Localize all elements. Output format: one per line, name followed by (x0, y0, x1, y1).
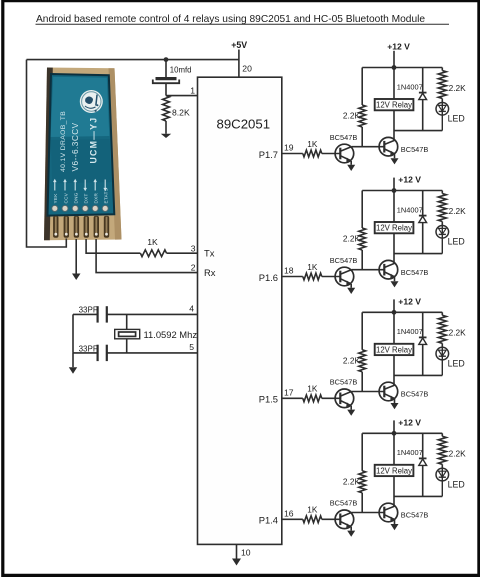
svg-text:BC547B: BC547B (330, 499, 358, 508)
wire base node (channel 4) (352, 512, 385, 514)
transistor Q4a BC547B (335, 510, 354, 529)
wire port to base resistor (channel 3) (282, 397, 303, 399)
resistor 2.2K pull-up (channel 2) (359, 191, 366, 270)
svg-text:1K: 1K (147, 237, 158, 247)
resistor 2.2K pull-up (channel 4) (359, 433, 366, 512)
svg-text:1N4007: 1N4007 (397, 82, 423, 91)
resistor 1K (serial) (140, 250, 166, 257)
svg-text:2.2K: 2.2K (449, 328, 467, 338)
junction node on +12V rail (channel 2) (392, 188, 397, 193)
svg-text:P1.5: P1.5 (259, 394, 278, 405)
ground (pin 10) (232, 559, 241, 566)
wire LED/diode return (channel 1) (394, 130, 442, 132)
wire port to base resistor (channel 4) (282, 518, 303, 520)
transistor Q1a BC547B (335, 144, 354, 163)
svg-text:LED: LED (448, 479, 465, 489)
ground (Q3b emitter) (391, 399, 399, 409)
resistor 1K base (channel 1) (303, 150, 322, 157)
svg-text:4: 4 (189, 303, 194, 313)
svg-text:+12 V: +12 V (398, 418, 421, 428)
svg-text:2.2K: 2.2K (449, 449, 467, 459)
svg-text:YEK: YEK (53, 193, 58, 204)
relay driver channel 3 (259, 297, 466, 416)
svg-text:2: 2 (191, 262, 196, 272)
wire relay coil bottom to collector (channel 3) (393, 355, 395, 385)
LED indicator (channel 4) (436, 468, 449, 496)
LED indicator (channel 1) (436, 103, 449, 131)
svg-text:V6--6.3CCV: V6--6.3CCV (71, 122, 80, 171)
wire 8.2K to ground (165, 121, 167, 134)
svg-text:P1.6: P1.6 (259, 272, 278, 283)
ground (below 8.2K) (161, 134, 171, 138)
wire 1K to Q3a base (channel 3) (322, 397, 341, 399)
svg-text:20: 20 (242, 64, 252, 74)
wire 1K to pin 3 Tx (167, 252, 198, 254)
svg-text:19: 19 (284, 143, 294, 153)
transistor Q2a BC547B (335, 267, 354, 286)
wire pin 4 left segment (73, 313, 98, 315)
resistor 2.2K LED series (channel 4) (438, 433, 446, 468)
wire pin 1 (166, 95, 198, 97)
svg-text:+12 V: +12 V (398, 175, 421, 185)
svg-text:1K: 1K (307, 139, 318, 149)
wire LED/diode return (channel 4) (394, 495, 442, 497)
svg-text:12V Relay: 12V Relay (376, 345, 412, 354)
relay RL1 12V Relay (375, 99, 414, 110)
svg-text:+12 V: +12 V (387, 42, 410, 52)
svg-text:ETATS: ETATS (104, 188, 109, 204)
wire caps common left (72, 314, 74, 353)
wire crystal bottom stub (126, 339, 128, 353)
svg-text:DXT: DXT (84, 193, 89, 203)
svg-text:2.2K: 2.2K (449, 206, 467, 216)
LED indicator (channel 3) (436, 347, 449, 375)
wire module GND down (75, 239, 77, 274)
svg-text:BC547B: BC547B (401, 390, 429, 399)
svg-text:1K: 1K (307, 262, 318, 272)
wire base node (channel 1) (352, 146, 385, 148)
relay driver channel 4 (259, 418, 466, 537)
wire 1K to Q4a base (channel 4) (322, 518, 341, 520)
resistor 2.2K pull-up (channel 3) (359, 312, 366, 391)
wire port to base resistor (channel 2) (282, 276, 303, 278)
ground (Q2b emitter) (391, 277, 399, 287)
ground (Q1b emitter) (391, 154, 399, 164)
svg-text:10mfd: 10mfd (170, 65, 192, 74)
svg-text:LED: LED (448, 237, 465, 247)
wire +12V feed (channel 4) (393, 420, 395, 433)
svg-text:Tx: Tx (204, 247, 215, 258)
relay driver channel 1 (259, 42, 466, 171)
wire LED/diode return (channel 2) (394, 253, 442, 255)
resistor 1K base (channel 2) (303, 273, 322, 280)
wire module RXD to pin 2 Rx (96, 239, 197, 273)
wire +12V feed (channel 2) (393, 178, 395, 191)
wire pin 5 right segment (107, 352, 198, 354)
wire crystal top stub (126, 314, 128, 329)
svg-text:16: 16 (284, 508, 294, 518)
resistor 2.2K pull-up (channel 1) (359, 68, 366, 147)
wire relay coil top (channel 2) (393, 191, 395, 223)
svg-text:2.2K: 2.2K (449, 83, 467, 93)
wire +12V rail (channel 3) (362, 311, 442, 313)
svg-text:LED: LED (448, 114, 465, 124)
svg-text:1N4007: 1N4007 (397, 448, 423, 457)
junction node on +12V rail (channel 1) (392, 65, 397, 70)
transistor Q4b BC547B (379, 503, 398, 522)
svg-text:UCM—YJ: UCM—YJ (89, 117, 99, 164)
transistor Q3a BC547B (335, 389, 354, 408)
junction node on +12V rail (channel 4) (392, 431, 397, 436)
ground (module GND pin) (72, 274, 81, 281)
svg-text:P1.4: P1.4 (259, 515, 278, 526)
wire +12V rail (channel 2) (362, 190, 442, 192)
wire relay coil top (channel 3) (393, 312, 395, 344)
ground (Q4a emitter) (347, 527, 355, 537)
svg-text:+5V: +5V (231, 40, 247, 50)
wire cap bottom to pin1 node (165, 83, 167, 95)
svg-text:BC547B: BC547B (401, 268, 429, 277)
ground (Q4b emitter) (391, 520, 399, 530)
svg-text:5: 5 (189, 342, 194, 352)
svg-text:33PF: 33PF (79, 344, 98, 353)
resistor 2.2K LED series (channel 3) (438, 312, 446, 347)
wire +5V rail (27, 59, 239, 61)
wire crystal to ground (72, 353, 74, 367)
svg-text:BC547B: BC547B (330, 378, 358, 387)
wire +12V feed (channel 1) (393, 51, 395, 68)
wire +5V to module VCC (left loop) (27, 60, 67, 247)
svg-text:11.0592 Mhz: 11.0592 Mhz (144, 329, 198, 340)
capacitor C 10mfd (polarized) (153, 79, 179, 84)
svg-text:1N4007: 1N4007 (397, 205, 423, 214)
wire +5V drop to pin 20 (238, 50, 240, 78)
svg-text:2.2K: 2.2K (343, 111, 361, 121)
wire +12V rail (channel 1) (362, 67, 442, 69)
wire LED/diode return (channel 3) (394, 374, 442, 376)
svg-text:2.2K: 2.2K (343, 355, 361, 365)
diode D1 1N4007 flyback (419, 68, 427, 131)
capacitor 33PF (top) (98, 306, 107, 322)
svg-text:DNG: DNG (74, 192, 79, 203)
svg-text:17: 17 (284, 387, 294, 397)
svg-text:12V Relay: 12V Relay (376, 224, 412, 233)
svg-text:18: 18 (284, 266, 294, 276)
svg-text:33PF: 33PF (79, 305, 98, 314)
svg-text:LED: LED (448, 358, 465, 368)
title underline (36, 23, 450, 25)
resistor 8.2K (163, 96, 170, 121)
pin 10 wire (236, 544, 238, 558)
svg-text:CCV: CCV (63, 192, 68, 203)
wire relay coil top (channel 1) (393, 68, 395, 100)
svg-text:1K: 1K (307, 384, 318, 394)
svg-text:8.2K: 8.2K (172, 107, 190, 117)
diode D2 1N4007 flyback (419, 191, 427, 254)
wire relay coil bottom to collector (channel 1) (393, 110, 395, 140)
svg-text:3: 3 (191, 243, 196, 253)
svg-text:10: 10 (241, 548, 251, 558)
relay driver channel 2 (259, 175, 466, 294)
wire port to base resistor (channel 1) (282, 153, 303, 155)
svg-text:BC547B: BC547B (401, 145, 429, 154)
capacitor 33PF (bottom) (98, 345, 107, 361)
HC-05 bluetooth module U2 (JY-MCU photo) (44, 68, 122, 241)
ground (Q3a emitter) (347, 406, 355, 416)
LED indicator (channel 2) (436, 226, 449, 254)
wire base node (channel 2) (352, 269, 385, 271)
resistor 2.2K LED series (channel 1) (438, 68, 446, 103)
IC U1 89C2051 body (198, 77, 282, 544)
diode D3 1N4007 flyback (419, 312, 427, 375)
transistor Q1b BC547B (379, 137, 398, 156)
svg-text:BC547B: BC547B (330, 133, 358, 142)
resistor 1K base (channel 3) (303, 395, 322, 402)
wire pin 5 left segment (73, 352, 98, 354)
wire relay coil bottom to collector (channel 2) (393, 233, 395, 263)
svg-text:12V Relay: 12V Relay (376, 101, 412, 110)
ground (Q2a emitter) (347, 284, 355, 294)
relay RL2 12V Relay (375, 222, 414, 233)
wire relay coil top (channel 4) (393, 433, 395, 465)
svg-text:P1.7: P1.7 (259, 149, 278, 160)
svg-text:+12 V: +12 V (398, 297, 421, 307)
junction node (cap 10mfd tap) (164, 57, 169, 62)
transistor Q3b BC547B (379, 382, 398, 401)
svg-text:40.1V DRAOB_TB: 40.1V DRAOB_TB (60, 111, 67, 172)
wire 1K to Q2a base (channel 2) (322, 276, 341, 278)
wire base node (channel 3) (352, 391, 385, 393)
svg-text:BC547B: BC547B (401, 511, 429, 520)
junction node on +12V rail (channel 3) (392, 310, 397, 315)
svg-text:Rx: Rx (204, 267, 216, 278)
svg-text:Android based remote control o: Android based remote control of 4 relays… (36, 14, 425, 25)
svg-text:2.2K: 2.2K (343, 234, 361, 244)
wire +12V rail (channel 4) (362, 432, 442, 434)
wire pin 4 right segment (107, 313, 198, 315)
crystal X1 11.0592 Mhz (115, 329, 140, 338)
wire module TXD to 1K (86, 239, 140, 253)
diode D4 1N4007 flyback (419, 433, 427, 496)
ground (crystal) (69, 367, 77, 374)
resistor 2.2K LED series (channel 2) (438, 191, 446, 226)
svg-text:BC547B: BC547B (330, 256, 358, 265)
relay RL3 12V Relay (375, 344, 414, 355)
transistor Q2b BC547B (379, 260, 398, 279)
svg-text:89C2051: 89C2051 (217, 116, 271, 131)
svg-text:2.2K: 2.2K (343, 476, 361, 486)
ground (Q1a emitter) (347, 161, 355, 171)
wire 1K to Q1a base (channel 1) (322, 153, 341, 155)
svg-text:1N4007: 1N4007 (397, 327, 423, 336)
svg-text:1: 1 (190, 85, 195, 95)
svg-text:12V Relay: 12V Relay (376, 466, 412, 475)
wire +12V feed (channel 3) (393, 299, 395, 312)
svg-text:DXR: DXR (94, 193, 99, 204)
resistor 1K base (channel 4) (303, 516, 322, 523)
svg-text:1K: 1K (307, 505, 318, 515)
relay RL4 12V Relay (375, 465, 414, 476)
wire rail to cap top (165, 60, 167, 78)
wire relay coil bottom to collector (channel 4) (393, 476, 395, 506)
